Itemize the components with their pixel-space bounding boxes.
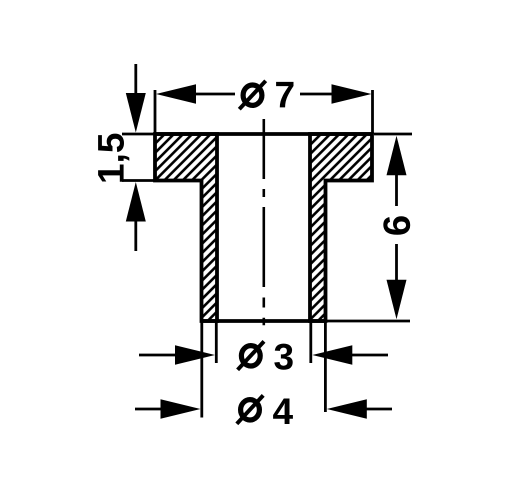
hatched section, left L-shape (155, 134, 217, 321)
diameter symbol of dim 7 (243, 85, 262, 105)
value 4 of dim 4 (273, 399, 293, 425)
dim 7 right arrow (332, 84, 372, 103)
diameter symbol of dim 4 (241, 400, 260, 420)
extension line right for dim 7 (371, 90, 374, 134)
dim 1,5 lower arrow (126, 182, 146, 222)
dim 1,5 extension line bottom (122, 179, 157, 182)
dim 6 lower arrow (395, 244, 398, 280)
value 6 rotated (383, 216, 410, 234)
dim 4 left arrow (135, 408, 163, 411)
dim 6 upper arrow (387, 136, 407, 176)
extension line inner right for dim 3 (309, 322, 312, 363)
flange top edge line across bore (155, 132, 372, 136)
value 7 of dim 7 (276, 82, 293, 108)
centerline (262, 119, 265, 325)
extension line outer right for dim 4 (324, 322, 327, 412)
value 3 of dim 3 (274, 344, 292, 370)
value 1,5 rotated (98, 134, 129, 182)
dim 1,5 upper arrow (134, 64, 137, 95)
dim 3 left arrow (139, 354, 177, 357)
bottom edge line across bore (202, 319, 326, 323)
dim 3 right arrow (312, 345, 352, 364)
diameter symbol of dim 3 (241, 346, 260, 366)
extension line inner left for dim 3 (215, 322, 218, 363)
extension line left for dim 7 (154, 90, 157, 134)
dim 1,5 extension line top (122, 133, 157, 136)
extension line outer left for dim 4 (200, 322, 203, 418)
bottom extension line for dim 6 (326, 320, 411, 323)
hatched section, right L-shape (310, 134, 372, 321)
dim 7 left arrow (156, 84, 196, 103)
dim 4 right arrow (327, 399, 367, 418)
extension line top for dim 6 (374, 133, 412, 136)
